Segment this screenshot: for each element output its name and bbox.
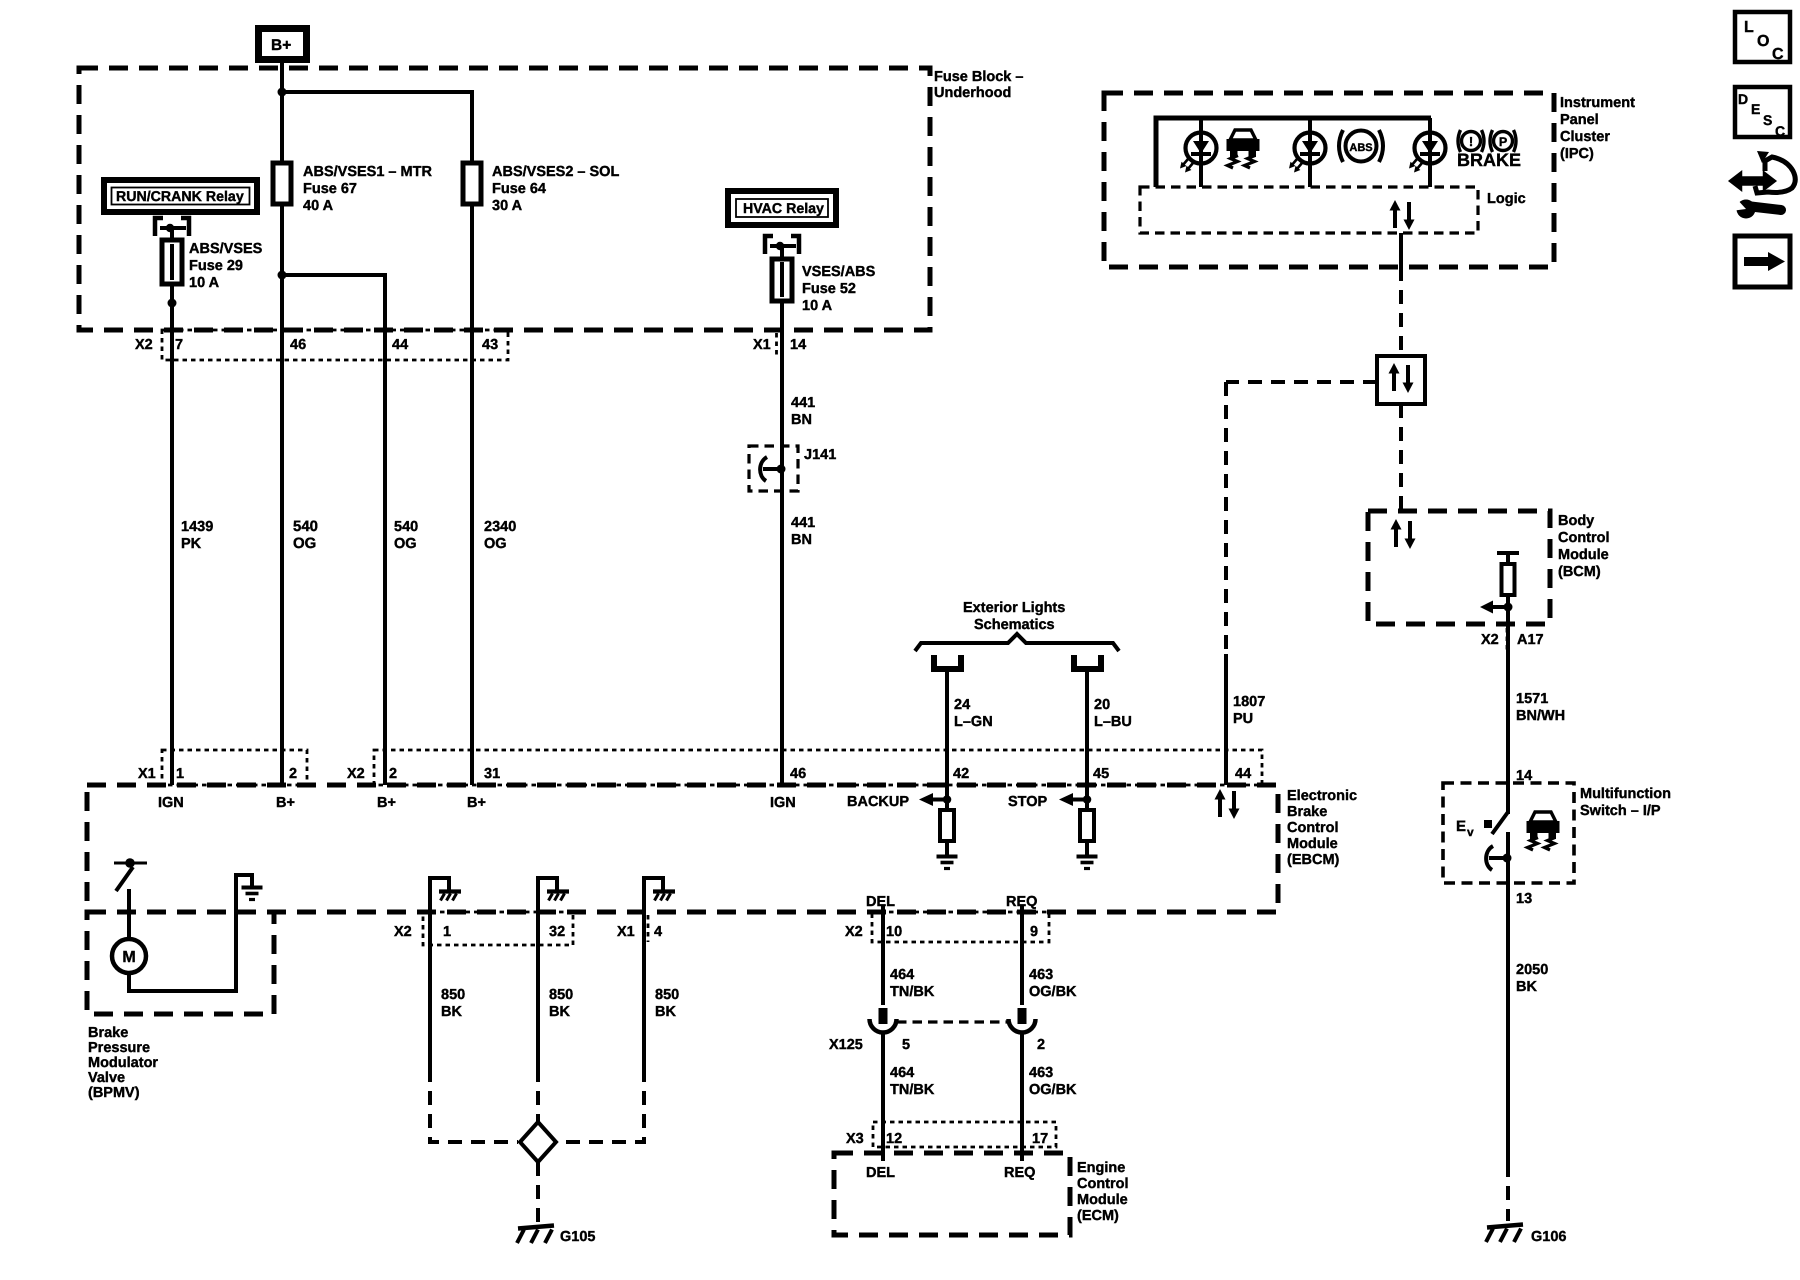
relay contact HVAC	[765, 236, 799, 259]
inline connector X125 pin 2	[1018, 1008, 1027, 1024]
svg-text:Multifunction: Multifunction	[1580, 786, 1671, 802]
svg-text:X2: X2	[394, 924, 412, 940]
ECM connector row X3	[873, 1122, 1056, 1147]
svg-text:M: M	[122, 949, 135, 966]
wire 463 OG/BK REQ lower	[1020, 1033, 1024, 1147]
wire 2050 BK	[1506, 883, 1510, 1163]
svg-text:2340: 2340	[484, 519, 516, 535]
svg-text:Underhood: Underhood	[934, 85, 1011, 101]
wire lamp 3 drop	[1428, 118, 1432, 187]
svg-text:IGN: IGN	[158, 795, 184, 811]
svg-text:(BCM): (BCM)	[1558, 564, 1601, 580]
svg-text:OG: OG	[394, 536, 417, 552]
ground internal stop	[1077, 857, 1098, 869]
EBCM top connector row X2	[374, 750, 1262, 785]
wire 24 L-GN to EBCM X2-42	[945, 670, 949, 785]
wire 540 OG pin44 to EBCM X2-2	[383, 360, 387, 785]
svg-text:Module: Module	[1287, 836, 1338, 852]
svg-text:1: 1	[443, 924, 451, 940]
wire pin45 internal	[1085, 785, 1089, 810]
B+ terminal	[259, 29, 307, 60]
svg-text:Fuse 67: Fuse 67	[303, 181, 357, 197]
svg-text:X1: X1	[753, 337, 771, 353]
ABS warning symbol	[1346, 131, 1377, 162]
svg-text:OG: OG	[484, 536, 507, 552]
svg-text:Modulator: Modulator	[88, 1055, 158, 1071]
svg-text:L–GN: L–GN	[954, 714, 993, 730]
svg-text:(ECM): (ECM)	[1077, 1208, 1119, 1224]
svg-text:Control: Control	[1558, 530, 1610, 546]
svg-text:1439: 1439	[181, 519, 213, 535]
wire pin17 into ECM	[1020, 1147, 1024, 1161]
svg-text:Exterior Lights: Exterior Lights	[963, 600, 1065, 616]
wire splice to G105 (dashed)	[536, 1162, 540, 1222]
ground G106	[1486, 1225, 1523, 1243]
svg-text:46: 46	[790, 766, 806, 782]
svg-text:X2: X2	[347, 766, 365, 782]
wire lamp 1 drop	[1199, 118, 1203, 187]
svg-text:BK: BK	[655, 1004, 676, 1020]
svg-text:PK: PK	[181, 536, 202, 552]
svg-text:X1: X1	[138, 766, 156, 782]
ground internal backup	[937, 857, 958, 869]
resistor stop	[1080, 810, 1094, 841]
wire B+ feed down	[280, 63, 284, 163]
svg-text:TN/BK: TN/BK	[890, 1082, 935, 1098]
svg-text:9: 9	[1030, 924, 1038, 940]
svg-text:OG: OG	[293, 535, 316, 552]
wire serial data IPC to flow box (dashed)	[1399, 267, 1403, 356]
svg-text:45: 45	[1093, 766, 1109, 782]
svg-text:J141: J141	[804, 447, 836, 463]
wire fuse64 to pin 43	[470, 204, 474, 360]
svg-text:S: S	[1763, 112, 1772, 128]
svg-text:Instrument: Instrument	[1560, 95, 1635, 111]
svg-text:14: 14	[1516, 768, 1532, 784]
svg-text:10 A: 10 A	[802, 298, 833, 314]
MFS switch blade	[1492, 812, 1508, 834]
ground G105	[517, 1226, 554, 1244]
svg-text:BRAKE: BRAKE	[1457, 150, 1521, 170]
svg-text:BN: BN	[791, 532, 812, 548]
ground lead chassis hatch 3	[644, 878, 675, 912]
svg-text:X1: X1	[617, 924, 635, 940]
ground lead chassis hatch 2	[538, 878, 569, 912]
wire logic output	[1399, 233, 1403, 267]
svg-text:VSES/ABS: VSES/ABS	[802, 264, 876, 280]
svg-text:X2: X2	[845, 924, 863, 940]
svg-text:BK: BK	[1516, 979, 1537, 995]
svg-text:850: 850	[655, 987, 679, 1003]
svg-text:B+: B+	[276, 795, 295, 811]
svg-text:D: D	[1738, 91, 1748, 107]
DESC nav icon	[1735, 87, 1790, 137]
indicator LED brake	[1409, 133, 1446, 173]
svg-text:463: 463	[1029, 967, 1053, 983]
svg-text:17: 17	[1032, 1131, 1048, 1147]
BPMV connector row X2	[423, 912, 573, 945]
forward arrow nav icon	[1735, 236, 1790, 287]
svg-text:G106: G106	[1531, 1229, 1566, 1245]
ground lead chassis hatch 1	[430, 878, 461, 912]
svg-text:Electronic: Electronic	[1287, 788, 1357, 804]
svg-text:Schematics: Schematics	[974, 617, 1055, 633]
wire 2050 BK dashed to G106	[1506, 1163, 1510, 1221]
svg-text:464: 464	[890, 967, 914, 983]
svg-text:32: 32	[549, 924, 565, 940]
svg-text:2050: 2050	[1516, 962, 1548, 978]
svg-text:43: 43	[482, 337, 498, 353]
inline connector X125 pin 5	[879, 1008, 888, 1024]
compare/repair nav icon	[1730, 151, 1795, 219]
svg-text:7: 7	[175, 337, 183, 353]
svg-text:5: 5	[902, 1037, 910, 1053]
fuse 29 ABS/VSES 10A	[162, 240, 182, 284]
wire 1439 PK pin7 to EBCM X1-1	[170, 360, 174, 785]
svg-text:(EBCM): (EBCM)	[1287, 852, 1340, 868]
logic up/down arrows	[1390, 200, 1415, 230]
svg-text:14: 14	[790, 337, 806, 353]
svg-text:BK: BK	[441, 1004, 462, 1020]
indicator LED traction	[1180, 133, 1217, 173]
svg-text:IGN: IGN	[770, 795, 796, 811]
svg-text:G105: G105	[560, 1229, 595, 1245]
HVAC Relay	[728, 191, 836, 225]
svg-text:2: 2	[289, 766, 297, 782]
wire 850 BK pin1 dashed to splice	[430, 1068, 518, 1142]
BCM internal resistor network	[1497, 551, 1519, 555]
IPC logic box	[1140, 187, 1478, 233]
svg-text:O: O	[1757, 33, 1769, 50]
wire serial data flow box to BCM (dashed)	[1399, 404, 1403, 511]
brake pressure switch	[114, 862, 147, 865]
svg-text:REQ: REQ	[1004, 1165, 1035, 1181]
instrument panel cluster box	[1104, 93, 1554, 267]
svg-text:ABS: ABS	[1349, 142, 1372, 154]
svg-text:Module: Module	[1077, 1192, 1128, 1208]
svg-text:Cluster: Cluster	[1560, 129, 1610, 145]
svg-text:L–BU: L–BU	[1094, 714, 1132, 730]
svg-text:Brake: Brake	[88, 1025, 128, 1041]
svg-text:441: 441	[791, 395, 815, 411]
svg-text:Fuse 29: Fuse 29	[189, 258, 243, 274]
svg-text:850: 850	[549, 987, 573, 1003]
svg-text:BN/WH: BN/WH	[1516, 708, 1565, 724]
svg-text:A17: A17	[1517, 632, 1544, 648]
svg-text:BN: BN	[791, 412, 812, 428]
wire fuse67 to pin 46	[280, 204, 284, 360]
node branch to pin 44	[278, 271, 287, 280]
wire 463 OG/BK REQ upper	[1020, 905, 1024, 1005]
svg-text:10: 10	[886, 924, 902, 940]
svg-text:2: 2	[389, 766, 397, 782]
wire 850 BK pin4	[642, 912, 646, 1068]
wire 850 BK pin32 dashed to splice	[536, 1068, 540, 1122]
svg-text:E: E	[1456, 818, 1466, 835]
serial data arrows at pin 44	[1215, 789, 1240, 819]
svg-text:463: 463	[1029, 1065, 1053, 1081]
svg-text:20: 20	[1094, 697, 1110, 713]
svg-text:13: 13	[1516, 891, 1532, 907]
BPMV connector X1-4	[647, 915, 650, 942]
BCM up/down arrows	[1391, 519, 1416, 549]
svg-text:46: 46	[290, 337, 306, 353]
wire fuse52 to pin X1-14	[780, 301, 784, 360]
svg-text:1571: 1571	[1516, 691, 1548, 707]
svg-text:L: L	[1744, 19, 1754, 36]
wire 441 BN pin14 to J141	[780, 360, 784, 785]
svg-text:Valve: Valve	[88, 1070, 125, 1086]
svg-text:B+: B+	[467, 795, 486, 811]
svg-text:BK: BK	[549, 1004, 570, 1020]
RUN/CRANK Relay	[104, 180, 257, 212]
svg-text:10 A: 10 A	[189, 275, 220, 291]
svg-text:TN/BK: TN/BK	[890, 984, 935, 1000]
svg-text:30 A: 30 A	[492, 198, 523, 214]
svg-text:X3: X3	[846, 1131, 864, 1147]
fuse block underhood box	[79, 68, 930, 330]
fuse 64 ABS/VSES2 SOL 30A	[463, 163, 481, 204]
svg-text:Pressure: Pressure	[88, 1040, 150, 1056]
svg-text:HVAC Relay: HVAC Relay	[743, 201, 824, 217]
EBCM box	[87, 785, 1278, 912]
splice diamond	[520, 1122, 556, 1162]
svg-text:DEL: DEL	[866, 1165, 895, 1181]
svg-text:464: 464	[890, 1065, 914, 1081]
off-page connector stop lamp	[1074, 655, 1101, 669]
svg-text:1807: 1807	[1233, 694, 1265, 710]
svg-text:OG/BK: OG/BK	[1029, 984, 1077, 1000]
node on wire	[168, 299, 177, 308]
wire 464 TN/BK DEL upper	[881, 905, 885, 1005]
svg-text:ABS/VSES2 – SOL: ABS/VSES2 – SOL	[492, 164, 619, 180]
off-page connector backup lamp	[934, 655, 961, 669]
traction control car icon	[1227, 130, 1260, 168]
svg-text:850: 850	[441, 987, 465, 1003]
MFS lower contact with spring hook	[1506, 832, 1510, 883]
svg-text:DEL: DEL	[866, 894, 895, 910]
wire branch to pin 44	[282, 275, 385, 360]
brake warning symbol (!)(P) BRAKE	[1462, 132, 1481, 151]
svg-text:B+: B+	[377, 795, 396, 811]
wire motor return to ground	[129, 875, 252, 991]
wire pin42 internal	[945, 785, 949, 810]
resistor backup	[940, 810, 954, 841]
wire 464 TN/BK DEL lower	[881, 1033, 885, 1147]
fuse 67 ABS/VSES1 MTR 40A	[273, 163, 291, 204]
wire lamp 2 drop	[1308, 118, 1312, 187]
svg-text:Logic: Logic	[1487, 191, 1526, 207]
BPMV box	[87, 912, 274, 1014]
svg-text:ABS/VSES: ABS/VSES	[189, 241, 263, 257]
svg-text:Fuse Block –: Fuse Block –	[934, 69, 1023, 85]
ground motor return	[242, 888, 263, 900]
IPC lamp bus wire	[1156, 118, 1431, 187]
MFS car skid icon	[1527, 812, 1560, 850]
wire fuse29 to pin 7	[170, 284, 174, 360]
svg-text:BACKUP: BACKUP	[847, 794, 909, 810]
pump motor M	[112, 939, 146, 973]
wire switch to pump motor	[127, 889, 131, 939]
wire 850 BK pin4 dashed to splice	[558, 1068, 644, 1142]
indicator LED ABS	[1289, 133, 1326, 173]
svg-text:X2: X2	[1481, 632, 1499, 648]
svg-text:4: 4	[654, 924, 662, 940]
svg-text:Switch – I/P: Switch – I/P	[1580, 803, 1661, 819]
wire 2340 OG pin43 to EBCM X2-31	[470, 360, 474, 785]
svg-text:OG/BK: OG/BK	[1029, 1082, 1077, 1098]
svg-text:44: 44	[392, 337, 408, 353]
svg-text:Fuse 64: Fuse 64	[492, 181, 546, 197]
svg-text:RUN/CRANK Relay: RUN/CRANK Relay	[116, 189, 244, 205]
svg-text:Control: Control	[1287, 820, 1339, 836]
ECM box	[834, 1153, 1070, 1235]
svg-text:Engine: Engine	[1077, 1160, 1125, 1176]
serial data flow box	[1377, 356, 1425, 404]
wire 1571 BN/WH BCM to MFS	[1506, 624, 1510, 814]
wire 850 BK pin1	[428, 912, 432, 1068]
svg-text:C: C	[1775, 123, 1785, 139]
svg-text:Module: Module	[1558, 547, 1609, 563]
svg-text:STOP: STOP	[1008, 794, 1048, 810]
svg-text:42: 42	[953, 766, 969, 782]
svg-text:ABS/VSES1 – MTR: ABS/VSES1 – MTR	[303, 164, 432, 180]
svg-text:Body: Body	[1558, 513, 1594, 529]
fuse 52 VSES/ABS 10A	[772, 259, 792, 301]
svg-text:C: C	[1772, 46, 1784, 63]
wire 850 BK pin32	[536, 912, 540, 1068]
svg-text:540: 540	[394, 519, 418, 535]
X125 row dashes	[897, 1020, 1008, 1023]
wire 20 L-BU to EBCM X2-45	[1085, 670, 1089, 785]
svg-text:24: 24	[954, 697, 970, 713]
svg-text:P: P	[1499, 135, 1507, 149]
wire 540 OG pin46 to EBCM X1-2	[280, 360, 284, 785]
svg-text:Panel: Panel	[1560, 112, 1599, 128]
LOC nav icon	[1735, 12, 1790, 62]
wire 1807 PU (dashed from BCM link, solid to pin 44)	[1224, 382, 1228, 654]
svg-text:540: 540	[293, 518, 318, 535]
svg-text:X2: X2	[135, 337, 153, 353]
svg-text:441: 441	[791, 515, 815, 531]
wire serial data link to EBCM pin 44 (dashed)	[1226, 380, 1377, 384]
node B+ branch	[278, 88, 287, 97]
svg-text:Control: Control	[1077, 1176, 1129, 1192]
BCM output arrow	[1480, 601, 1493, 614]
svg-text:12: 12	[886, 1131, 902, 1147]
svg-text:1: 1	[176, 766, 184, 782]
svg-text:Brake: Brake	[1287, 804, 1327, 820]
svg-text:40 A: 40 A	[303, 198, 334, 214]
svg-text:X125: X125	[829, 1037, 863, 1053]
svg-text:(BPMV): (BPMV)	[88, 1085, 140, 1101]
connector X1-14 of fuse block	[775, 333, 778, 357]
wire pin12 into ECM	[881, 1147, 885, 1161]
wire branch to fuse 64	[282, 92, 472, 163]
svg-text:B+: B+	[271, 37, 291, 54]
EBCM top connector row X1	[162, 750, 307, 785]
brace	[915, 634, 1119, 651]
relay contact RUN/CRANK	[155, 218, 189, 241]
svg-text:!: !	[1469, 134, 1473, 149]
svg-text:2: 2	[1037, 1037, 1045, 1053]
splice J141	[749, 446, 798, 491]
svg-text:v: v	[1467, 825, 1474, 839]
svg-text:Fuse 52: Fuse 52	[802, 281, 856, 297]
svg-text:44: 44	[1235, 766, 1251, 782]
multifunction switch box	[1443, 783, 1574, 883]
svg-text:E: E	[1751, 101, 1760, 117]
svg-text:(IPC): (IPC)	[1560, 146, 1594, 162]
connector X2 row of fuse block	[162, 330, 508, 360]
svg-text:PU: PU	[1233, 711, 1253, 727]
body control module box	[1368, 511, 1550, 624]
svg-text:31: 31	[484, 766, 500, 782]
